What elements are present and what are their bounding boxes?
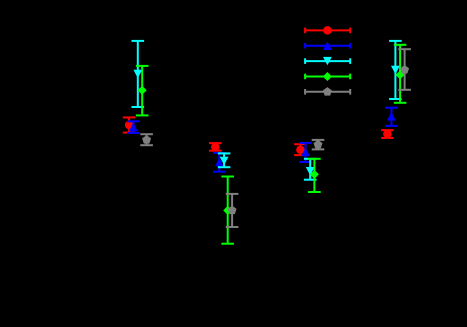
- errorbar red group 3: [294, 144, 307, 155]
- errorbar green group 2: [221, 177, 234, 244]
- errorbar gray group 2: [226, 194, 239, 227]
- legend entry series 1 (red circles): [305, 26, 350, 35]
- errorbar blue group 1: [127, 121, 140, 133]
- errorbar blue group 4: [385, 108, 398, 126]
- errorbar red group 1: [123, 117, 136, 132]
- errorbar gray group 1: [140, 134, 153, 145]
- legend entry series 2 (blue up-triangles): [305, 42, 350, 50]
- errorbar green group 4: [394, 45, 407, 103]
- errorbar cyan group 2: [218, 153, 231, 167]
- errorbar blue group 2: [213, 153, 226, 172]
- legend entry series 3 (cyan down-triangles): [305, 57, 350, 65]
- errorbar gray group 4: [398, 49, 411, 90]
- errorbar cyan group 4: [389, 41, 402, 99]
- errorbar cyan group 1: [132, 41, 145, 107]
- legend entry series 4 (green diamonds): [305, 72, 350, 81]
- errorbar red group 2: [209, 143, 222, 152]
- errorbar green group 1: [136, 66, 149, 116]
- errorbar gray group 3: [312, 140, 325, 150]
- legend entry series 5 (gray pentagons): [305, 87, 350, 96]
- errorbar blue group 3: [299, 143, 312, 162]
- errorbar cyan group 3: [304, 159, 317, 180]
- errorbar red group 4: [381, 130, 394, 139]
- errorbar green group 3: [308, 159, 321, 192]
